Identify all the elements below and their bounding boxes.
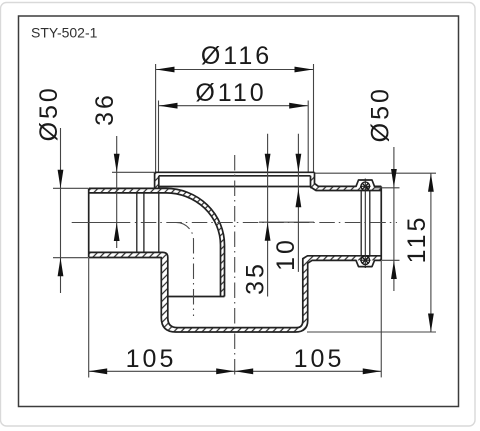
115 extension lines: [307, 173, 436, 332]
rim top line: [155, 171, 315, 173]
hatch: outlet top wall with gasket bump: [316, 186, 381, 190]
horizontal pipe centerline long first dash: [72, 222, 131, 224]
115 top arrow: [428, 173, 434, 192]
35 bottom arrow: [265, 222, 271, 241]
D50 right dimension line: [393, 147, 395, 291]
36 bottom arrow: [114, 223, 120, 242]
D50 left extension lines: [53, 188, 88, 257]
svg-text:Ø50: Ø50: [366, 86, 394, 142]
right upper wall outer + outlet top outer with bump: [315, 172, 382, 186]
svg-text:36: 36: [91, 92, 119, 126]
D116 right arrow: [295, 67, 314, 73]
rim second line: [159, 175, 311, 177]
115 dimension line: [430, 174, 432, 332]
gasket bottom O-ring: [360, 256, 371, 265]
svg-text:10: 10: [272, 237, 300, 271]
D50 right bottom arrow: [391, 261, 397, 280]
svg-text:Ø116: Ø116: [201, 42, 272, 70]
105 center right arrow: [235, 368, 254, 374]
10 dimension line: [297, 134, 299, 272]
outlet pipe end edge: [380, 186, 382, 260]
right socket shoulder lines: [361, 191, 370, 256]
left pipe end edge: [88, 188, 90, 257]
svg-text:115: 115: [403, 215, 431, 264]
gasket axis line: [364, 179, 366, 269]
svg-text:Ø50: Ø50: [35, 85, 63, 141]
D110 dimension line: [159, 105, 308, 107]
10 top arrow: [296, 154, 302, 173]
svg-text:STY-502-1: STY-502-1: [31, 25, 98, 41]
36 dimension line: [116, 136, 118, 248]
D50 left dimension line: [60, 128, 62, 293]
36 extension line: [112, 171, 154, 173]
svg-text:105: 105: [126, 345, 177, 373]
right upper wall inner + outlet top inner: [311, 176, 382, 191]
D50 right top arrow: [391, 169, 397, 188]
35 dimension line: [267, 134, 269, 297]
part outlines: [89, 172, 382, 332]
vertical vessel centerline: [234, 155, 236, 378]
105 center left arrow: [216, 368, 235, 374]
D50 left bottom arrow: [58, 258, 64, 277]
10 bottom arrow: [296, 189, 302, 208]
gasket top O-ring: [360, 182, 371, 191]
105 extension line left: [88, 258, 90, 378]
horizontal pipe centerline: [135, 222, 397, 224]
left socket bore line: [158, 193, 160, 253]
hatch: pipe bottom wall + vessel walls + bottom + outlet bottom wall: [89, 252, 382, 332]
svg-text:Ø110: Ø110: [195, 79, 266, 107]
hatch: left pipe top wall + elbow wall: [89, 172, 382, 332]
D50 right extension lines: [374, 188, 399, 260]
pipe bottom inner + vessel inner wall + bottom inner + right inner + outlet bottom inner: [89, 252, 382, 327]
hatch: vessel right wall above outlet: [311, 176, 319, 191]
rim inner shoulder line: [159, 186, 311, 188]
D116 extension lines: [156, 64, 314, 172]
hatch: vessel left wall above pipe: [155, 172, 159, 188]
left pipe top outer + elbow outer arc + tube right outer wall: [89, 188, 225, 296]
elbow centerline: [176, 223, 194, 317]
D110 right arrow: [289, 103, 308, 109]
left socket shoulder lines: [137, 193, 144, 253]
vessel left wall above pipe: outer: [154, 172, 156, 188]
105 dimension lines: [89, 370, 381, 372]
dimension texts: [35, 42, 431, 373]
105 right outer arrow: [363, 368, 382, 374]
elbow mouth: [168, 296, 225, 298]
D110 left arrow: [159, 103, 178, 109]
35 extension line at centerline: [259, 221, 314, 223]
dimension lines: [53, 64, 436, 378]
105 extension line right: [380, 261, 382, 377]
arrowheads: [58, 67, 434, 375]
D110 extension lines: [159, 101, 309, 172]
vessel left wall above pipe: inner: [158, 176, 160, 189]
left pipe top inner + elbow inner arc + tube right inner wall: [89, 193, 221, 297]
svg-text:35: 35: [242, 261, 270, 295]
svg-text:105: 105: [294, 345, 345, 373]
D116 dimension line: [156, 69, 313, 71]
pipe bottom outer + vessel outer wall + bottom outer + right outer + outlet bottom outer with bump: [89, 258, 382, 333]
105 left outer arrow: [89, 368, 108, 374]
36 top arrow: [114, 154, 120, 173]
D50 left top arrow: [58, 170, 64, 189]
D116 left arrow: [156, 67, 175, 73]
115 bottom arrow: [428, 314, 434, 333]
35 top arrow: [265, 154, 271, 173]
centerlines: [72, 155, 397, 378]
